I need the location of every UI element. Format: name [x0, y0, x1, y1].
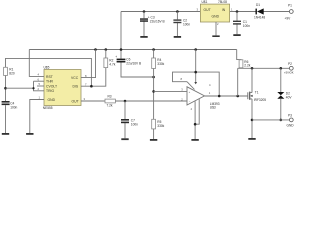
- resistor R6: [239, 60, 251, 68]
- svg-text:330k: 330k: [157, 62, 164, 66]
- resistor R5: [152, 119, 165, 139]
- node dot D2 bottom: [280, 119, 283, 122]
- node dot hat supply: [194, 71, 197, 74]
- connector P1 +9V: [285, 3, 294, 20]
- wire trig net: [6, 87, 34, 89]
- svg-text:RST: RST: [46, 75, 53, 79]
- svg-text:OUT: OUT: [72, 99, 79, 103]
- node dot source-P3: [251, 119, 254, 122]
- wire top rail +5V: [121, 12, 290, 60]
- connector P3 GND: [287, 114, 295, 128]
- svg-text:U$3: U$3: [210, 106, 216, 110]
- svg-text:U$1: U$1: [202, 0, 208, 4]
- node dot hat-output: [218, 95, 221, 98]
- wire OUT to R3: [81, 100, 105, 102]
- svg-text:100n: 100n: [131, 123, 138, 127]
- ground under U1: [212, 22, 219, 37]
- capacitor C1: [233, 10, 250, 34]
- wire divider: [153, 69, 155, 120]
- wire THR-TRIG jog: [34, 81, 45, 91]
- transistor T1 IRF3205: [248, 68, 266, 138]
- svg-text:22u/16V B: 22u/16V B: [126, 61, 141, 65]
- capacitor C4: [2, 101, 18, 133]
- svg-text:T1: T1: [255, 90, 259, 94]
- wire CVOLT stub: [37, 85, 44, 87]
- svg-text:100n: 100n: [183, 22, 190, 26]
- wire plus input: [154, 90, 187, 92]
- resistor R2: [104, 50, 116, 68]
- wire opamp vplus hat: [173, 50, 220, 97]
- ground under C3: [140, 36, 147, 38]
- supply arrow blob: [194, 82, 197, 84]
- op-amp U3 LM393: [181, 87, 219, 110]
- svg-text:7.2k: 7.2k: [107, 104, 113, 108]
- svg-text:+: +: [115, 55, 117, 59]
- svg-text:THR: THR: [46, 80, 54, 84]
- ground under C7: [121, 138, 128, 140]
- svg-text:P2: P2: [288, 62, 292, 66]
- svg-text:IRF3205: IRF3205: [254, 98, 266, 102]
- svg-text:R3: R3: [108, 95, 112, 99]
- svg-text:D1: D1: [256, 3, 260, 7]
- resistor R3: [105, 95, 115, 108]
- diode D1 1N4148: [254, 3, 265, 20]
- svg-text:GND: GND: [287, 123, 295, 127]
- capacitor C3 electrolytic: [140, 10, 165, 36]
- svg-text:P1: P1: [288, 3, 292, 7]
- wire R1/DIS net: [6, 58, 92, 86]
- node dot rail-R2: [105, 48, 108, 51]
- svg-text:100n: 100n: [243, 24, 250, 28]
- ground under C1: [233, 34, 240, 36]
- resistor R4: [152, 50, 165, 69]
- 555 timer U5 NE555: [43, 66, 81, 110]
- node dot pullup-output: [236, 95, 239, 98]
- node dot rail-R4: [152, 48, 155, 51]
- resistor R1: [4, 67, 15, 75]
- svg-text:NE555: NE555: [43, 106, 53, 110]
- svg-text:+5V/OK: +5V/OK: [284, 71, 294, 75]
- svg-text:1N4148: 1N4148: [254, 16, 265, 20]
- svg-text:VCC: VCC: [71, 76, 79, 80]
- ground under C2: [174, 36, 181, 38]
- svg-text:P3: P3: [288, 114, 292, 118]
- svg-text:4.7k: 4.7k: [109, 63, 115, 67]
- wire R1 to C4: [5, 76, 7, 102]
- capacitor C2: [173, 10, 190, 36]
- wire R3 to opamp minus input: [115, 100, 186, 102]
- svg-text:U$5: U$5: [44, 66, 50, 70]
- node dot rail-VCC: [94, 48, 97, 51]
- svg-text:TRIG: TRIG: [46, 89, 54, 93]
- wire VCC stub: [81, 50, 96, 78]
- node dot rail-C6: [120, 48, 123, 51]
- svg-text:78L08: 78L08: [218, 0, 227, 4]
- node dot drain: [251, 67, 254, 70]
- wire GND pin to ground: [30, 100, 44, 134]
- wire R6 bottom to P2 and pullup: [238, 68, 290, 96]
- diode D2 TVS 40V: [277, 68, 292, 120]
- wire rail to R6: [237, 50, 241, 60]
- node dot C7: [124, 100, 127, 103]
- ground under 555: [26, 133, 33, 135]
- svg-text:820: 820: [9, 72, 15, 76]
- node dot divider-C6: [152, 76, 155, 79]
- wire RST to rail: [29, 50, 44, 77]
- wire opamp ground pins: [195, 99, 199, 139]
- wire source to P3: [252, 119, 289, 121]
- ground under C4: [2, 133, 9, 135]
- connector P2: [284, 62, 294, 75]
- svg-text:100n: 100n: [10, 105, 17, 109]
- node dot DIS: [90, 85, 93, 88]
- svg-text:2.2k: 2.2k: [244, 64, 250, 68]
- capacitor C6 electrolytic: [115, 55, 153, 77]
- ground under opamp: [191, 139, 198, 141]
- wire vertical from top rail to main rail: [120, 12, 122, 60]
- svg-text:22u/16V B: 22u/16V B: [150, 19, 165, 23]
- regulator U1 78L05: [197, 0, 234, 26]
- svg-text:GND: GND: [48, 98, 56, 102]
- svg-text:330k: 330k: [157, 124, 164, 128]
- svg-text:IN: IN: [222, 8, 226, 12]
- wire THR stub: [34, 80, 45, 82]
- capacitor C7: [121, 101, 138, 138]
- wire main +5V rail: [29, 49, 236, 51]
- svg-text:DIS: DIS: [73, 85, 79, 89]
- node dot rail-opamp supply: [194, 48, 197, 51]
- wire DIS stub: [81, 68, 106, 87]
- ground under R5: [150, 139, 157, 141]
- node dot plus input: [152, 90, 155, 93]
- svg-text:GND: GND: [212, 15, 220, 19]
- node dot opamp gnd: [194, 123, 197, 126]
- svg-text:40V: 40V: [286, 96, 293, 100]
- ground under T1: [248, 138, 255, 140]
- svg-text:CVOLT: CVOLT: [46, 85, 57, 89]
- svg-text:+9V: +9V: [285, 17, 292, 21]
- svg-text:OUT: OUT: [204, 8, 211, 12]
- node dot trig jog: [32, 87, 34, 89]
- node dot D2 top: [280, 67, 283, 70]
- node dot trig: [4, 87, 7, 90]
- wire opamp output: [205, 95, 248, 97]
